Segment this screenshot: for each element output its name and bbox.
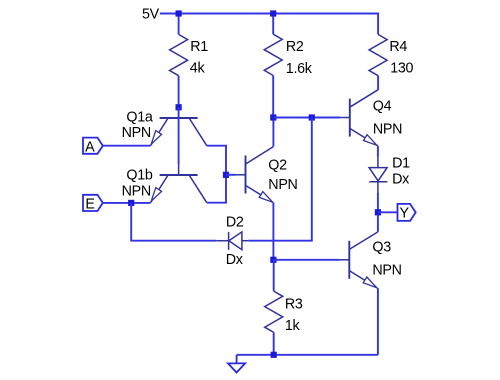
svg-text:Q3: Q3 <box>372 240 391 256</box>
wire D1 to Y node <box>377 192 379 232</box>
junction top rail R1 <box>176 10 182 16</box>
wire bottom rail <box>237 354 379 356</box>
resistor R2 <box>264 34 282 75</box>
transistor Q1a <box>151 118 207 146</box>
wire top rail 5V <box>160 14 378 35</box>
svg-text:Y: Y <box>399 205 409 221</box>
junction top rail R2 <box>270 10 276 16</box>
wire R2 bottom stub <box>272 76 274 118</box>
svg-text:Q1b: Q1b <box>126 168 152 184</box>
diode D2 <box>216 232 248 250</box>
svg-text:Q1a: Q1a <box>126 109 152 125</box>
wire to Y flag <box>378 211 398 213</box>
junction E wire <box>128 200 134 206</box>
pin Y flag <box>398 204 416 221</box>
wire Q1b collector loop <box>207 175 226 203</box>
junction Q2 emitter R3 Q3 base <box>270 257 276 263</box>
wire Q4 emitter to D1 <box>377 146 379 157</box>
svg-text:R1: R1 <box>190 39 208 55</box>
wire Q4 base <box>273 117 340 119</box>
wire R3 top stub <box>273 260 275 291</box>
resistor R1 <box>170 34 188 75</box>
svg-text:E: E <box>85 197 94 213</box>
pin E flag <box>83 195 103 211</box>
diode D1 <box>369 157 387 193</box>
junction bottom rail R3 <box>271 352 277 358</box>
svg-text:4k: 4k <box>190 61 206 77</box>
wire R4 bottom stub <box>377 76 379 90</box>
wire Q2 base <box>226 174 236 176</box>
svg-text:NPN: NPN <box>268 177 297 193</box>
svg-text:Q4: Q4 <box>373 99 392 115</box>
resistor R3 <box>265 291 283 332</box>
svg-text:Dx: Dx <box>392 172 409 188</box>
transistor Q1b <box>151 165 207 203</box>
pin A flag <box>83 138 103 154</box>
junction collectors to Q2 base <box>223 172 229 178</box>
wire input E <box>103 202 151 204</box>
svg-text:NPN: NPN <box>373 122 402 138</box>
svg-text:Q2: Q2 <box>268 158 287 174</box>
svg-text:R2: R2 <box>286 39 304 55</box>
transistor Q2 <box>236 147 274 203</box>
junction R2 Q2 collector <box>270 114 276 120</box>
transistor Q4 <box>340 90 378 146</box>
svg-text:1.6k: 1.6k <box>286 61 313 77</box>
wire D2 to Q4 base node <box>248 118 311 241</box>
wire R1 bottom stub <box>178 76 180 108</box>
svg-text:1k: 1k <box>285 318 301 334</box>
wire R1 top stub <box>178 14 180 35</box>
wire R3 bottom stub <box>273 332 275 354</box>
wire R2 top stub <box>272 14 274 35</box>
svg-text:Dx: Dx <box>226 252 243 268</box>
junction Y node <box>375 209 381 215</box>
svg-text:NPN: NPN <box>122 184 151 200</box>
svg-text:130: 130 <box>390 61 413 77</box>
wire ground stem <box>236 355 238 364</box>
svg-text:D1: D1 <box>392 156 410 172</box>
wire input A <box>103 145 151 147</box>
svg-text:D2: D2 <box>226 215 244 231</box>
resistor R4 <box>369 34 387 75</box>
svg-text:NPN: NPN <box>122 125 151 141</box>
junction R1 bottom <box>176 104 182 110</box>
transistor Q3 <box>340 232 378 288</box>
svg-text:5V: 5V <box>142 6 160 22</box>
svg-text:A: A <box>85 139 95 155</box>
wire Q3 base <box>274 259 340 261</box>
ground <box>228 363 245 372</box>
wire Q2 collector riser <box>272 118 274 147</box>
wire E clamp to D2 <box>131 203 216 241</box>
junction Q4 base D2 drop <box>309 114 315 120</box>
wire Q2 emitter riser <box>272 203 274 260</box>
svg-text:R3: R3 <box>285 297 303 313</box>
wire Q1a collector loop <box>207 146 226 175</box>
svg-text:NPN: NPN <box>372 263 401 279</box>
wire Q3 emitter return <box>377 288 379 355</box>
wire Q1 base feed <box>178 107 180 164</box>
svg-text:R4: R4 <box>389 39 407 55</box>
